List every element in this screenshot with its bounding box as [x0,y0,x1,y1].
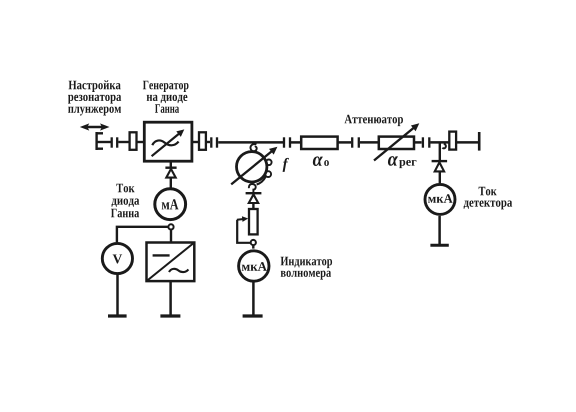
wire detector branch down [439,142,441,160]
microammeter мкА (detector current) [425,184,455,214]
ground (wavemeter meter) [243,314,263,317]
wire [118,141,129,143]
waveguide flange left of generator [130,132,137,150]
label: Генератор на диоде Ганна [143,81,189,113]
label: Ток детектора [464,187,513,210]
wire from node to voltmeter branch [117,227,168,242]
wire [438,216,441,245]
ground (voltmeter) [108,314,127,317]
generator supply diode [165,168,176,178]
waveguide flange right of generator [199,132,206,150]
node (wavemeter meter tap) [251,240,256,245]
wavemeter detector diode [246,193,262,203]
wire [252,203,254,208]
wavemeter output loop terminals [257,160,272,185]
microammeter мкА (wavemeter indicator) [239,251,269,281]
tuning double-headed arrow [80,123,110,130]
power supply (AC-DC converter) box [147,243,195,282]
wire [116,274,119,316]
wire to detector junction [430,141,449,144]
coupling plates right of generator [211,137,217,147]
rheostat (wavemeter sensitivity resistor) [237,209,258,243]
coupling plates before fixed attenuator [284,137,290,147]
detector diode [432,161,448,171]
wire [252,281,255,316]
label: Индикатор волномера [281,257,333,280]
matched load termination [478,132,481,151]
stub from generator box to diode [170,161,172,167]
label: Ток диода Ганна [111,184,139,218]
fixed attenuator alpha-0 [301,137,337,149]
wavemeter (resonant frequency meter) [231,147,277,185]
coupling plates left of generator [112,137,118,147]
voltmeter V [102,243,132,273]
wire [338,141,351,144]
wire [192,141,198,143]
label: Настройка резонатора плунжером [68,80,121,115]
wire [414,141,421,144]
label: alpha-reg [388,156,416,168]
node (supply tap) [168,224,173,229]
ground (detector meter) [430,244,448,247]
wire from node down to power supply [170,230,172,242]
coupling plates between attenuators [352,137,359,147]
wire [457,141,479,144]
wire [206,141,210,143]
label: f [283,158,289,172]
detector coupling loop [443,144,446,149]
ground (power supply) [160,314,180,317]
plunger (tuning short-circuit piston) [96,132,112,150]
milliammeter мА (Gunn diode current) [155,189,186,220]
wire [170,178,172,188]
label: Аттенюатор [345,115,403,126]
label: alpha-0 [313,156,329,166]
wire [360,141,378,144]
wavemeter input coupling loop [250,143,256,151]
coupling plates after variable attenuator [423,137,429,147]
wire [439,171,441,183]
variable attenuator alpha-reg [374,123,419,160]
wire [291,141,301,144]
wavemeter lower coupling hook [249,184,256,192]
Gunn-diode generator box [144,122,192,161]
waveguide flange right section [449,132,456,150]
wire [252,246,254,249]
wire [137,141,144,143]
wire [169,281,172,316]
main transmission line [218,141,283,144]
